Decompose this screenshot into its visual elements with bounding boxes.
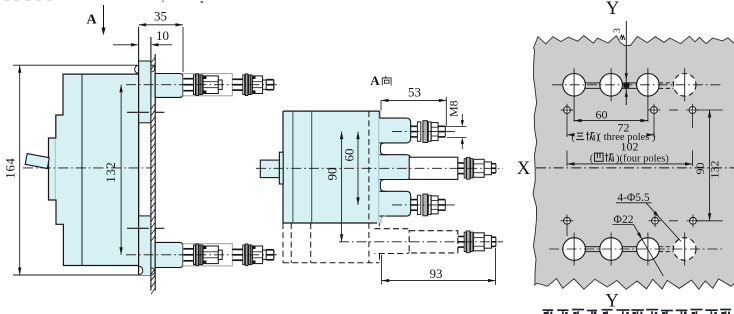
mounting hole top-left	[564, 107, 571, 114]
phase hole bottom 2	[600, 238, 623, 261]
svg-text:60: 60	[596, 108, 608, 122]
notch soft corner 3	[381, 216, 386, 223]
mounting neck lower	[139, 216, 151, 275]
svg-text:90: 90	[693, 163, 707, 175]
svg-text:3: 3	[613, 28, 623, 33]
svg-text:132: 132	[104, 161, 118, 182]
body front face line	[138, 27, 140, 276]
body top step	[379, 111, 381, 118]
stud row1 short	[410, 125, 417, 127]
centerline dash top small holes	[669, 109, 678, 111]
phase hole top 2	[600, 74, 623, 97]
phase hole top 3	[637, 74, 660, 97]
extension line 35 right	[182, 27, 184, 72]
phase hole bottom 4 (four-pole, dashed)	[673, 238, 696, 261]
body left edge	[282, 111, 284, 223]
hidden internal line	[368, 111, 370, 263]
phase hole top 4 (four-pole, dashed)	[673, 74, 696, 97]
svg-text:Y: Y	[605, 292, 618, 312]
hidden tab row4	[374, 229, 410, 254]
view A body front	[283, 111, 380, 223]
body internal edge line	[81, 74, 83, 265]
phase hole top 1	[563, 74, 586, 97]
stud row4 long hidden	[409, 231, 458, 253]
svg-text:10: 10	[156, 28, 169, 43]
top edge remnants	[162, 1, 164, 2]
mounting hole top-right (four pole)	[689, 107, 696, 114]
panel cutout edge lower	[127, 227, 149, 229]
tab row1	[379, 118, 410, 143]
svg-text:53: 53	[408, 85, 421, 100]
tab row3	[379, 191, 410, 216]
body internal line 2	[311, 111, 313, 223]
Y auxiliary line and small dim 3	[625, 21, 627, 105]
rounded foot bottom-left	[139, 266, 143, 274]
svg-text:A: A	[86, 13, 97, 28]
plate arc top	[151, 65, 155, 72]
centerline row3	[392, 204, 457, 206]
centerline dash bottom small holes	[669, 220, 678, 222]
hidden connector tab4 left	[378, 223, 380, 229]
extension line 164 top	[13, 64, 137, 66]
svg-text:X: X	[517, 159, 531, 179]
hidden lower outline	[282, 223, 284, 263]
svg-text:164: 164	[4, 157, 18, 178]
svg-text:A: A	[370, 73, 380, 88]
breaker body side profile	[49, 74, 139, 265]
body right soft edge	[378, 112, 380, 223]
upper terminal bolt assembly	[183, 74, 232, 96]
centerline row2 / X axis lead	[256, 167, 503, 169]
svg-text:35: 35	[154, 9, 167, 24]
terminal block upper	[155, 74, 183, 98]
extension line 164 bottom / neck bottom	[13, 274, 151, 276]
plate right line	[154, 54, 156, 291]
svg-text:M8: M8	[447, 100, 461, 117]
body horizontal centerline	[23, 167, 150, 169]
shaft	[260, 160, 279, 178]
neck lower top edge	[139, 215, 151, 217]
body bottom edge	[283, 222, 377, 224]
plate left line	[150, 37, 152, 291]
bottom caption (cut off)	[543, 309, 554, 311]
centerline row4	[339, 241, 503, 243]
rounded foot top-left	[135, 65, 139, 73]
hole row centerline bottom	[549, 248, 723, 250]
svg-text:60: 60	[342, 149, 357, 162]
body top edge	[283, 110, 380, 112]
terminal block lower	[155, 242, 183, 267]
upper bolt centerline	[126, 84, 280, 86]
svg-text:132: 132	[708, 161, 722, 179]
mounting hole bottom-left	[564, 217, 571, 224]
slot lines bottom row	[586, 246, 600, 248]
slot lines top row	[585, 82, 599, 84]
svg-text:90: 90	[325, 168, 340, 181]
mounting panel plate	[151, 54, 155, 291]
view arrow A	[103, 5, 105, 30]
hole row centerline top	[552, 84, 723, 86]
notch rounded end 2	[380, 180, 386, 192]
tab row2	[379, 155, 410, 180]
X axis	[536, 167, 734, 169]
phase hole bottom 3	[637, 238, 660, 261]
lower terminal bolt assembly	[183, 244, 232, 266]
svg-text:Y: Y	[606, 0, 619, 19]
svg-text:4-Φ5.5: 4-Φ5.5	[617, 192, 650, 204]
mounting hole bottom-mid	[652, 217, 659, 224]
hidden line below upper block	[154, 97, 156, 112]
stud row3 short	[410, 199, 417, 201]
plate hatching	[151, 57, 155, 63]
lower bolt centerline	[126, 254, 280, 256]
body soft shading line	[54, 139, 56, 199]
panel cutout edge upper	[127, 111, 149, 113]
shaft flange	[279, 152, 283, 184]
panel plate with torn edges	[533, 36, 734, 290]
phase hole bottom 1	[563, 238, 586, 261]
mounting hole bottom-right (four pole)	[690, 217, 697, 224]
centerline row1	[392, 131, 457, 133]
leader dia22	[634, 225, 664, 277]
mounting neck upper	[139, 61, 151, 123]
operating handle	[25, 154, 49, 169]
svg-text:)(four poles): )(four poles)	[616, 153, 669, 164]
notch rounded end 1	[380, 143, 386, 155]
body internal line 1	[292, 111, 294, 223]
mounting hole top-mid	[651, 107, 658, 114]
svg-text:93: 93	[430, 266, 443, 281]
stud row2 long	[409, 157, 458, 179]
leader 4-dia5.5	[646, 203, 681, 242]
svg-text:102: 102	[621, 139, 639, 153]
neck upper bottom edge	[139, 122, 151, 124]
